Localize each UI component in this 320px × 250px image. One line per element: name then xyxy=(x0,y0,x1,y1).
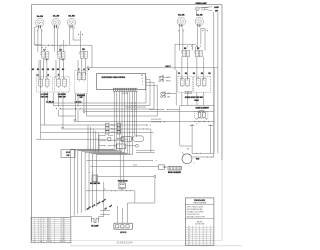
svg-text:RF/RR SURF UNIT SW: RF/RR SURF UNIT SW xyxy=(185,97,203,99)
svg-text:H2: H2 xyxy=(42,69,44,71)
connector low b xyxy=(126,190,130,191)
wires box D to oven box xyxy=(182,92,188,105)
svg-text:V: V xyxy=(142,84,143,86)
svg-text:4A-4B: 4A-4B xyxy=(196,14,203,17)
connector plates row1 xyxy=(106,123,121,126)
bundle lines right xyxy=(125,91,163,137)
connector mid b xyxy=(76,108,81,110)
wire chart cells xyxy=(34,217,65,241)
svg-text:OVEN LAMP: OVEN LAMP xyxy=(195,2,207,5)
relay contact K1 xyxy=(159,75,164,78)
wire P1 right stem xyxy=(41,29,43,52)
svg-text:DLS: DLS xyxy=(125,139,128,141)
svg-text:BROIL: BROIL xyxy=(166,80,171,82)
relay contact K2 xyxy=(159,79,164,82)
svg-text:B: B xyxy=(41,222,42,224)
connector P5 xyxy=(203,30,208,32)
page bottom edge shadow xyxy=(70,245,242,247)
relay contact K4 xyxy=(161,95,166,98)
junction box J xyxy=(61,150,75,158)
terminal row sw3 xyxy=(78,69,89,71)
terminal row left2 xyxy=(36,75,59,77)
node open R xyxy=(154,175,156,177)
connector P3 xyxy=(70,27,75,29)
diagonal wire labels xyxy=(87,198,113,211)
svg-text:N2: N2 xyxy=(47,69,49,71)
connector P1 xyxy=(37,30,42,32)
svg-text:SUPPLY CIRCUIT 120/240V: SUPPLY CIRCUIT 120/240V xyxy=(187,207,204,209)
right drop 216 xyxy=(214,12,218,157)
connector bus c3 xyxy=(131,108,135,109)
svg-text:BK: BK xyxy=(188,235,190,237)
svg-text:SW: SW xyxy=(80,97,83,99)
svg-text:BK-12: BK-12 xyxy=(47,218,51,220)
surface element P5 (right front) xyxy=(195,14,203,28)
connector P4 xyxy=(179,30,184,32)
wire down from R node xyxy=(135,177,155,203)
svg-text:BK-12: BK-12 xyxy=(47,235,51,237)
connector right bus a xyxy=(187,45,191,46)
svg-text:COLOR CODE: COLOR CODE xyxy=(195,223,204,225)
svg-text:N: N xyxy=(210,239,211,241)
wires into box B xyxy=(56,58,63,79)
svg-text:H1: H1 xyxy=(185,73,187,75)
svg-text:ELECTRONIC OVEN CONTROL: ELECTRONIC OVEN CONTROL xyxy=(102,77,126,79)
svg-text:BK: BK xyxy=(188,237,190,239)
svg-text:BK: BK xyxy=(188,244,190,246)
title block frame xyxy=(185,198,214,245)
svg-text:N3: N3 xyxy=(57,69,59,71)
latch connector c1 xyxy=(105,134,109,135)
wire P3 stems xyxy=(70,28,81,51)
svg-text:DOOR LOCK: DOOR LOCK xyxy=(118,181,129,183)
wire mr1 xyxy=(168,109,180,111)
svg-text:H3: H3 xyxy=(52,69,54,71)
wire motor top xyxy=(192,152,214,154)
latch small box xyxy=(116,144,138,148)
svg-text:J1 J2: J1 J2 xyxy=(66,152,70,154)
svg-text:BK-12: BK-12 xyxy=(47,237,51,239)
svg-text:W-14: W-14 xyxy=(133,164,137,166)
svg-text:2A-2B: 2A-2B xyxy=(53,15,60,18)
bake connector R xyxy=(204,121,208,122)
sheet border frame xyxy=(31,5,222,241)
wire mid a xyxy=(59,92,76,116)
svg-text:BK-12: BK-12 xyxy=(47,222,51,224)
wire P2 stems xyxy=(54,28,58,51)
svg-text:L1: L1 xyxy=(36,75,38,77)
arrow under SW1 xyxy=(44,59,49,61)
terminal wires up xyxy=(117,203,135,223)
middle bus lines xyxy=(41,103,214,133)
terminal row right xyxy=(178,73,211,75)
svg-text:N: N xyxy=(210,233,211,235)
svg-text:H4: H4 xyxy=(62,68,64,71)
wire P1 left stem xyxy=(34,27,42,52)
svg-text:BK: BK xyxy=(141,75,143,77)
infinite switch A (LF) xyxy=(36,77,52,92)
infinite switch C (warmer) xyxy=(75,71,88,94)
connector bus c1 xyxy=(131,102,135,103)
infinite switch D (RR) xyxy=(178,76,193,92)
svg-text:N: N xyxy=(210,235,211,237)
connector plates row3 xyxy=(106,131,121,134)
connector bus c4 xyxy=(147,124,151,125)
oven thermostat motor xyxy=(182,152,200,164)
striped connector block xyxy=(92,175,98,182)
title block table xyxy=(185,223,214,245)
plates row4 xyxy=(108,138,124,142)
svg-text:RF: RF xyxy=(197,48,199,50)
note box right xyxy=(186,93,213,95)
connector right bus b xyxy=(196,45,200,46)
svg-text:B: B xyxy=(41,228,42,230)
EOC edge connector comb xyxy=(113,88,138,91)
svg-text:BK-12: BK-12 xyxy=(47,230,51,232)
lower left stubs xyxy=(100,211,110,215)
svg-text:N: N xyxy=(210,237,211,239)
svg-text:B: B xyxy=(41,226,42,228)
svg-text:BK: BK xyxy=(188,231,190,233)
oven lamp L1 xyxy=(195,7,199,11)
connector small xyxy=(42,47,46,48)
svg-text:BK: BK xyxy=(121,189,123,191)
svg-text:12: 12 xyxy=(34,239,36,241)
bake element xyxy=(195,110,208,118)
svg-text:B: B xyxy=(41,237,42,239)
EOC right wires xyxy=(146,76,158,116)
connector P3b xyxy=(78,34,83,36)
svg-text:UNIT SW: UNIT SW xyxy=(58,96,66,98)
wire chart header xyxy=(34,240,66,243)
surface switch SW1 xyxy=(40,52,49,58)
svg-text:BK: BK xyxy=(188,228,190,230)
electronic oven control box xyxy=(97,73,146,89)
EOC harness fan-out wires xyxy=(70,91,132,217)
svg-text:10: 10 xyxy=(34,235,36,237)
right bus H line xyxy=(175,44,196,70)
infinite switch B label xyxy=(58,94,67,98)
svg-text:240 V: 240 V xyxy=(165,65,171,68)
surface switch SW3 xyxy=(79,51,87,58)
lamp wires to labels xyxy=(199,6,219,13)
bake wires down xyxy=(192,119,211,154)
bus drop staircase xyxy=(88,125,98,153)
latch connector c2 xyxy=(105,140,109,141)
bake arrow L xyxy=(190,125,195,127)
connector low a xyxy=(111,190,115,191)
svg-text:N: N xyxy=(210,242,211,244)
svg-text:CIRCUIT: CIRCUIT xyxy=(60,241,66,243)
surface switch SW4 xyxy=(181,50,190,56)
svg-text:N: N xyxy=(210,226,211,228)
svg-text:B: B xyxy=(41,233,42,235)
latch stubs xyxy=(99,135,116,150)
wire P4 stems xyxy=(179,28,183,50)
svg-text:H1: H1 xyxy=(32,69,34,71)
terminal row left xyxy=(32,68,64,71)
connector bus c2 xyxy=(131,105,135,106)
surface bus H line xyxy=(35,45,92,68)
svg-text:N2: N2 xyxy=(208,73,210,75)
svg-text:BROIL ELEMENT: BROIL ELEMENT xyxy=(168,172,181,174)
connector mr1 xyxy=(163,109,167,110)
svg-text:BK: BK xyxy=(188,242,190,244)
svg-text:L1 N L2: L1 N L2 xyxy=(120,232,127,234)
door lock feed wires xyxy=(120,148,124,183)
broil feed arrow xyxy=(163,166,168,168)
terminal block xyxy=(114,223,132,229)
svg-text:B: B xyxy=(41,230,42,232)
svg-text:B: B xyxy=(41,220,42,222)
lamp connector xyxy=(89,172,93,173)
surface element P1 (left front) xyxy=(36,15,44,29)
svg-text:B: B xyxy=(41,224,42,226)
wire J3 stem xyxy=(63,92,87,128)
wire split to E xyxy=(193,44,196,50)
surface element P2 (left rear) xyxy=(52,15,60,29)
connector bus111 xyxy=(198,111,202,112)
svg-text:LF: LF xyxy=(43,50,45,52)
wires into box E xyxy=(197,57,204,80)
svg-text:N: N xyxy=(210,231,211,233)
svg-text:8A-8B: 8A-8B xyxy=(68,15,75,18)
bake connector L xyxy=(195,121,199,122)
relay K labels xyxy=(166,76,171,82)
svg-text:L1 BK-16: L1 BK-16 xyxy=(46,102,54,104)
svg-text:BK-12: BK-12 xyxy=(47,226,51,228)
connector bus c5 xyxy=(143,128,147,129)
broil element xyxy=(168,166,181,170)
wire to motor xyxy=(180,146,192,154)
right switch label row xyxy=(185,97,203,102)
svg-text:MDL: MDL xyxy=(167,96,170,98)
svg-text:BK-12: BK-12 xyxy=(47,228,51,230)
svg-text:BK: BK xyxy=(188,233,190,235)
connector plates row2 xyxy=(106,127,121,130)
svg-text:BK-12: BK-12 xyxy=(47,220,51,222)
junction node xyxy=(87,67,89,69)
svg-text:B: B xyxy=(41,239,42,241)
svg-text:11: 11 xyxy=(34,237,36,239)
surface element P3 (right rear) xyxy=(67,15,75,29)
door latch switch box xyxy=(122,137,132,142)
svg-text:BAKE ELEMENT: BAKE ELEMENT xyxy=(196,106,210,109)
svg-text:BK-12: BK-12 xyxy=(47,239,51,241)
svg-text:BK: BK xyxy=(188,239,190,241)
connector on bus 2 xyxy=(61,44,66,46)
svg-text:B: B xyxy=(41,232,42,234)
broil small box xyxy=(158,165,164,169)
node J1 xyxy=(83,111,85,113)
svg-text:B: B xyxy=(41,218,42,220)
door latch oval xyxy=(133,136,144,141)
svg-text:BK-12: BK-12 xyxy=(111,125,115,127)
240V supply line xyxy=(89,65,218,68)
infinite switch C label xyxy=(77,94,86,99)
door lamp switch xyxy=(91,219,99,228)
wire U2 feed xyxy=(60,40,64,52)
svg-text:B: B xyxy=(41,235,42,237)
broil line xyxy=(90,164,158,166)
svg-text:N1: N1 xyxy=(193,73,195,75)
wire lamp down xyxy=(196,11,198,15)
wire P5 stems xyxy=(197,28,205,50)
connector motor top xyxy=(196,153,200,154)
infinite switch B (LR) xyxy=(54,77,69,92)
connector on bus 1 xyxy=(48,44,53,46)
motor right wire xyxy=(192,156,214,158)
node J3 xyxy=(62,127,64,129)
surface switch SW2 xyxy=(57,52,66,58)
svg-text:BK-12: BK-12 xyxy=(47,232,51,234)
title block body xyxy=(187,207,205,224)
svg-text:100%: 100% xyxy=(194,100,199,102)
wires box E to oven box xyxy=(197,92,204,105)
bundle right lines xyxy=(136,150,155,152)
wires into box D xyxy=(182,57,188,80)
svg-text:H2: H2 xyxy=(201,73,203,75)
lower bus xyxy=(86,191,135,203)
bake arrow R xyxy=(208,125,213,127)
oven feed connector xyxy=(152,160,156,161)
svg-text:BK: BK xyxy=(188,226,190,228)
bus row4 xyxy=(36,138,108,140)
wire chart table xyxy=(31,218,71,243)
relay K34 labels xyxy=(167,93,170,98)
wire mid b xyxy=(77,93,79,121)
svg-text:FRIGIDAIRE: FRIGIDAIRE xyxy=(194,199,206,202)
door lock motor block xyxy=(119,183,125,189)
relay contact K3 xyxy=(161,92,166,95)
svg-text:(NOTE): (NOTE) xyxy=(197,222,203,224)
svg-text:BK-12: BK-12 xyxy=(111,128,115,130)
connector mr2 xyxy=(160,121,164,122)
svg-text:2A-2B: 2A-2B xyxy=(37,15,44,18)
svg-text:P1: P1 xyxy=(178,73,180,75)
infinite switch E (RF) xyxy=(194,76,211,92)
surface element P4 xyxy=(177,14,185,28)
latch frame line xyxy=(150,129,152,152)
lamp switch xyxy=(202,7,209,10)
arrow under SW2 xyxy=(60,59,65,61)
svg-text:316525204: 316525204 xyxy=(116,240,132,244)
svg-text:BK: BK xyxy=(187,149,189,151)
plate under D xyxy=(185,91,191,94)
relay wires right xyxy=(165,70,177,106)
wire J1 stem xyxy=(83,93,85,110)
svg-text:COLOR: COLOR xyxy=(47,241,52,243)
oven box top xyxy=(180,68,214,154)
node J2 xyxy=(74,119,76,121)
lower bus labels xyxy=(104,189,123,191)
connector motor R xyxy=(207,156,211,157)
neutral line xyxy=(98,175,154,177)
svg-text:N: N xyxy=(210,244,211,246)
svg-text:6A-6B: 6A-6B xyxy=(178,14,185,17)
connector bus121 xyxy=(200,121,204,122)
oven feed line xyxy=(86,160,152,162)
connector P2 xyxy=(54,27,59,29)
EOC pin labels xyxy=(141,75,144,86)
svg-text:L2: L2 xyxy=(47,75,49,77)
svg-text:BK-12: BK-12 xyxy=(47,224,51,226)
svg-text:BK-12: BK-12 xyxy=(47,233,51,235)
title block header xyxy=(193,199,207,205)
lamp switch line xyxy=(70,182,103,219)
infinite switch A label xyxy=(41,94,49,98)
connector mid a xyxy=(56,108,61,110)
wires into box C xyxy=(78,58,85,75)
svg-text:N: N xyxy=(210,228,211,230)
svg-text:BK-12: BK-12 xyxy=(111,132,115,134)
svg-text:CONDUCTORS ONLY: CONDUCTORS ONLY xyxy=(187,214,200,216)
surface switch SW5 xyxy=(194,50,203,56)
wires into box A xyxy=(39,58,47,79)
bus left verticals xyxy=(41,60,54,139)
latch connector c3 xyxy=(105,145,109,146)
